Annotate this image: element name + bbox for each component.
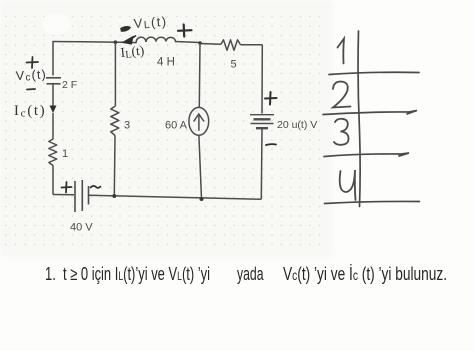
resistor R5 (horizontal zigzag)	[221, 40, 241, 51]
battery V2 20u(t)V plates	[250, 115, 274, 129]
wire: bottom wire from battery to bottom-right corner	[89, 195, 262, 199]
handwritten ~ mark right of 40V battery	[91, 186, 101, 188]
handwritten minus (20V negative)	[266, 143, 276, 146]
tally number 4	[340, 170, 356, 200]
wire: left branch top (from top wire down to capacitor)	[52, 42, 54, 76]
wire: middle branch bottom	[113, 136, 116, 197]
svg-text:4 H: 4 H	[157, 57, 175, 69]
svg-text:60 A: 60 A	[165, 120, 188, 132]
wire: top wire between inductor and current-source branch	[175, 42, 200, 43]
inductor L1 4H	[136, 37, 176, 42]
wire: current source branch bottom	[199, 135, 202, 199]
capacitor C1 2F plates	[46, 78, 61, 84]
wire: top wire from current-source branch to resistor 5	[200, 43, 221, 46]
resistor R3 (vertical zigzag)	[111, 106, 119, 136]
svg-text:yada: yada	[237, 264, 264, 284]
wire: left branch bottom to corner	[52, 166, 54, 195]
wire: middle branch (node A down to resistor R3)	[114, 42, 116, 106]
junction dot bottom (middle branch)	[112, 194, 116, 198]
handwritten minus (Vc negative)	[27, 88, 35, 91]
wire: current source branch top	[198, 43, 201, 108]
tally number 2	[333, 82, 351, 108]
junction dot at inductor left / node	[114, 40, 118, 44]
current source I1 60A (circle with up arrow)	[189, 107, 209, 135]
svg-text:2 F: 2 F	[62, 79, 77, 91]
svg-text:Vc(t): Vc(t)	[15, 67, 47, 84]
wire: right branch bottom	[260, 128, 263, 199]
battery V1 40V plates (vertical)	[75, 180, 89, 212]
wire: left branch between capacitor and Ic arrow	[52, 84, 54, 106]
handwritten + (Vc polarity)	[27, 57, 39, 68]
tally line under 1	[329, 72, 419, 74]
svg-text:1. t ≥ 0 için IL(t)’yi ve VL(: 1. t ≥ 0 için IL(t)’yi ve VL(t) ’yi	[45, 264, 210, 284]
tally grid: vertical line	[358, 31, 360, 207]
tally number 1	[338, 39, 345, 64]
wire: top wire left segment (node A to inductor)	[53, 42, 136, 43]
svg-text:40 V: 40 V	[70, 222, 93, 234]
Ic(t) current arrowhead (downward)	[50, 106, 57, 114]
wire: left branch between Ic arrow and resistor R1	[52, 113, 54, 139]
scribble smudge above IL arrow	[121, 27, 130, 31]
tally line under 3 (hook at right)	[324, 153, 409, 157]
svg-text:5: 5	[231, 59, 237, 71]
question text line	[45, 264, 447, 284]
svg-text:Ic(t): Ic(t)	[14, 103, 46, 120]
resistor R1 (vertical zigzag)	[49, 139, 57, 166]
wire: bottom left segment to 40V battery	[53, 194, 74, 196]
handwritten + (40V polarity)	[62, 182, 72, 193]
junction dot at current source top node	[198, 41, 202, 45]
wire: right branch (top-right corner down to battery)	[261, 45, 263, 114]
scanned graph-paper region background	[0, 0, 333, 258]
IL(t) current arrow (points left along top wire)	[123, 36, 137, 45]
svg-text:3: 3	[124, 120, 130, 132]
junction dot bottom (current source branch)	[200, 197, 204, 201]
handwritten + (inductor right polarity)	[178, 25, 192, 37]
tally number 3	[334, 119, 349, 145]
svg-text:Vc(t) ’yi ve İc (t) ’yi bulunu: Vc(t) ’yi ve İc (t) ’yi bulunuz.	[283, 264, 447, 284]
tally line under 4	[325, 201, 420, 203]
handwritten + (20V source polarity)	[265, 92, 277, 105]
svg-text:20 u(t) V: 20 u(t) V	[277, 119, 317, 131]
tally line under 2 (hook at right)	[323, 111, 417, 115]
wire: top wire from resistor 5 to top-right corner	[241, 44, 263, 46]
svg-text:1: 1	[62, 148, 68, 160]
